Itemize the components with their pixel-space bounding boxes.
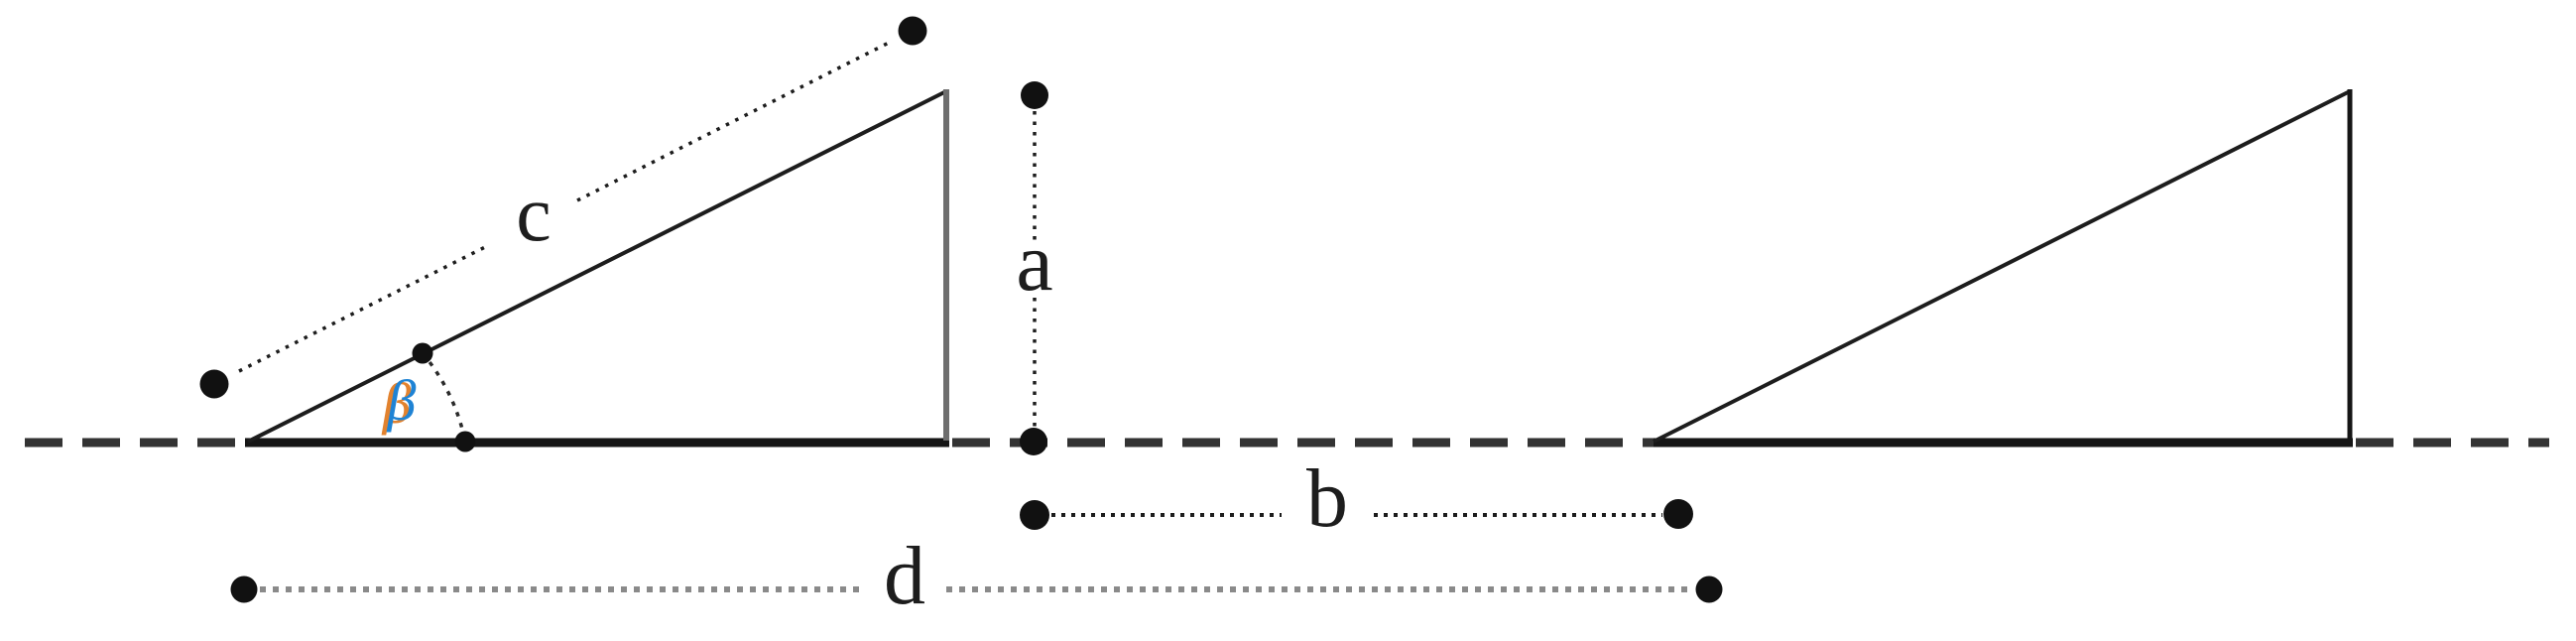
angle beta dot on baseline <box>455 432 476 452</box>
svg-text:β: β <box>387 368 417 433</box>
dimension b endpoint dot left <box>1020 500 1049 530</box>
left triangle hypotenuse <box>248 91 946 442</box>
dimension c dotted line upper segment <box>577 42 891 200</box>
svg-text:b: b <box>1306 452 1348 545</box>
dimension c dotted line lower segment <box>239 245 489 371</box>
dimension a dotted line upper segment <box>1033 111 1037 246</box>
angle beta dot on hypotenuse <box>413 343 433 364</box>
dimension c endpoint dot lower <box>200 370 229 399</box>
left triangle vertical edge <box>943 89 949 441</box>
dimension b dotted line right segment <box>1374 513 1662 517</box>
dimension b endpoint dot right <box>1663 499 1693 529</box>
dimension a endpoint dot bottom <box>1020 428 1047 455</box>
svg-text:d: d <box>884 530 925 622</box>
dimension d dotted line left segment <box>260 586 860 592</box>
dimension d endpoint dot right <box>1696 577 1723 603</box>
svg-text:c: c <box>516 171 552 258</box>
dimension c endpoint dot upper <box>899 17 927 46</box>
dimension b dotted line left segment <box>1051 513 1282 517</box>
dimension a dotted line lower segment <box>1033 298 1037 429</box>
wire baseline dashed left segment <box>25 439 248 448</box>
angle beta arc dotted <box>423 353 465 442</box>
dimension a endpoint dot top <box>1021 81 1048 109</box>
right triangle hypotenuse <box>1654 91 2350 442</box>
dimension d endpoint dot left <box>231 577 258 603</box>
svg-text:a: a <box>1016 216 1052 309</box>
wire baseline dashed middle segment <box>952 439 1654 448</box>
right triangle vertical edge <box>2348 89 2353 441</box>
dimension d dotted line right segment <box>946 586 1694 592</box>
wire left triangle base solid <box>245 439 949 448</box>
wire baseline dashed right segment <box>2356 439 2549 448</box>
wire right triangle base solid <box>1654 439 2353 448</box>
